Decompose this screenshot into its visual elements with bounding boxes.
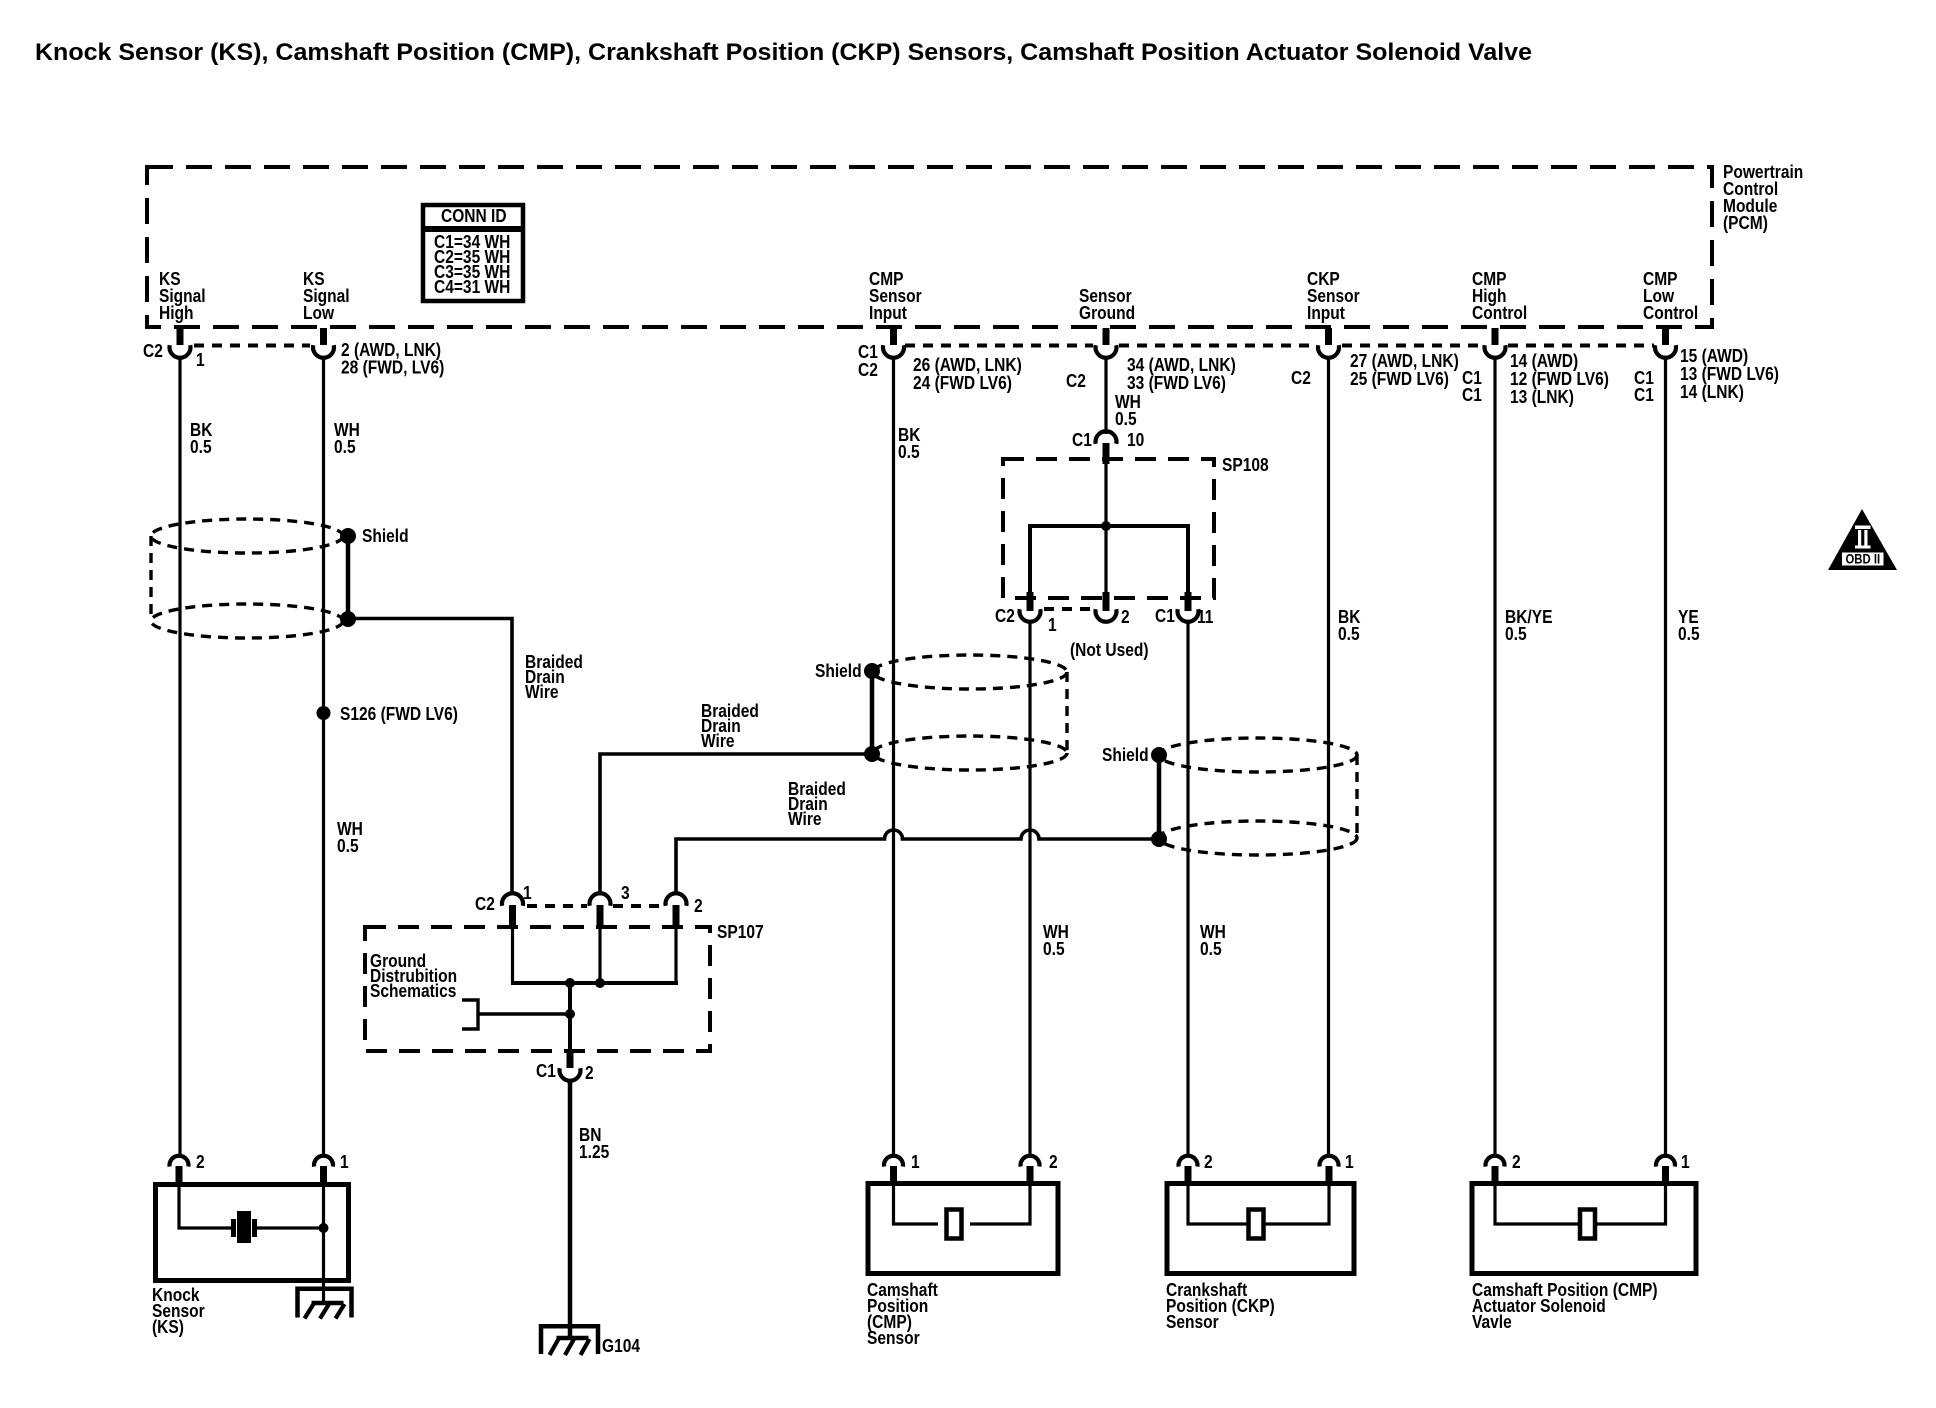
connector pin C1/C2 26/24 (CMP Sensor Input) xyxy=(858,328,1022,393)
connector dotted line between pins 1 and 2 xyxy=(1044,607,1092,611)
connector pin 1 (CKP sensor) xyxy=(1320,1152,1355,1183)
svg-text:3: 3 xyxy=(621,883,630,904)
connector pin 3 (drain from CMP) xyxy=(590,883,630,926)
svg-text:11: 11 xyxy=(1197,607,1214,628)
CKP sensor element xyxy=(1188,1183,1329,1239)
wire sensor ground (WH 0.5) upper segment xyxy=(1104,357,1107,434)
connector pin 2 (CMP sensor) xyxy=(1021,1152,1058,1183)
wire CMP high control (BK/YE 0.5) xyxy=(1493,357,1496,1156)
svg-text:G104: G104 xyxy=(602,1336,640,1357)
braided drain wire from CMP shield to SP107 pin 3 xyxy=(600,754,872,895)
svg-text:27 (AWD, LNK)25 (FWD LV6): 27 (AWD, LNK)25 (FWD LV6) xyxy=(1350,351,1459,390)
wire BN 1.25 to G104 xyxy=(568,1081,573,1341)
svg-text:C1=34 WHC2=35 WHC3=35 WHC4=31: C1=34 WHC2=35 WHC3=35 WHC4=31 WH xyxy=(434,232,510,298)
connector pin 2 (KS) xyxy=(170,1152,205,1183)
connector pin 2 (Not Used) xyxy=(1070,592,1149,660)
CMP cable shield xyxy=(864,655,1067,770)
svg-text:BK0.5: BK0.5 xyxy=(898,425,921,463)
svg-text:S126 (FWD LV6): S126 (FWD LV6) xyxy=(340,704,458,725)
CMP sensor element xyxy=(894,1183,1031,1239)
svg-text:SensorGround: SensorGround xyxy=(1079,286,1135,324)
svg-text:34 (AWD, LNK)33 (FWD LV6): 34 (AWD, LNK)33 (FWD LV6) xyxy=(1127,355,1236,394)
chassis ground (KS) xyxy=(298,1289,352,1319)
connector pin C1 14/12/13 (CMP High Control) xyxy=(1462,328,1609,407)
splice S126 xyxy=(317,704,458,725)
svg-text:Knock Sensor (KS), Camshaft Po: Knock Sensor (KS), Camshaft Position (CM… xyxy=(35,39,1532,66)
svg-text:1: 1 xyxy=(196,350,205,371)
CONN ID table xyxy=(423,205,523,301)
connector pin 2 (drain from CKP) xyxy=(666,893,703,926)
svg-text:C1C1: C1C1 xyxy=(1634,368,1654,406)
wire WH 0.5 to CKP sensor pin 2 xyxy=(1186,621,1189,1156)
knock sensor KS box xyxy=(156,1185,349,1281)
connector dotted line between pins 1 and 2 xyxy=(194,344,310,348)
svg-text:1: 1 xyxy=(911,1152,920,1173)
connector pin C2-1 (KS Signal High) xyxy=(143,328,205,370)
svg-text:C1C1: C1C1 xyxy=(1462,368,1482,406)
connector pin C2-1 (drain from KS) xyxy=(475,883,532,926)
svg-text:(Not Used): (Not Used) xyxy=(1070,640,1149,661)
connector pin 1 (CMP sensor) xyxy=(884,1152,920,1183)
SP108 internal bus xyxy=(1030,521,1188,603)
inline connector C1 pin 10 xyxy=(1072,430,1144,464)
wire KS signal high (BK 0.5) xyxy=(178,357,181,1156)
connector pin 2/28 (KS Signal Low) xyxy=(313,328,444,378)
svg-text:CONN ID: CONN ID xyxy=(441,206,507,227)
wire KS pin 1 to chassis ground xyxy=(322,1184,325,1304)
svg-text:BK0.5: BK0.5 xyxy=(190,420,213,458)
splice pack SP107 dashed box xyxy=(365,927,710,1051)
svg-text:1: 1 xyxy=(1048,615,1057,636)
svg-text:1: 1 xyxy=(340,1152,349,1173)
svg-text:YE0.5: YE0.5 xyxy=(1678,607,1700,645)
svg-text:28 (FWD, LV6): 28 (FWD, LV6) xyxy=(341,357,444,378)
connector pin C2 27/25 (CKP Sensor Input) xyxy=(1291,328,1459,389)
wire CKP sensor input (BK 0.5) xyxy=(1327,357,1330,1156)
wire CMP low control (YE 0.5) xyxy=(1664,357,1667,1156)
KS piezo element xyxy=(179,1184,329,1243)
wire KS signal low (WH 0.5) xyxy=(322,357,325,1156)
svg-text:C1: C1 xyxy=(1072,430,1092,451)
connector pin C1 15/13/14 (CMP Low Control) xyxy=(1634,328,1779,405)
svg-text:C1: C1 xyxy=(536,1061,556,1082)
connector pin C1-2 (ground trunk) xyxy=(536,1052,594,1083)
ground distribution branch with bracket xyxy=(462,1000,575,1029)
connector dotted line across CMP/CKP pins xyxy=(905,344,1654,348)
KS cable shield xyxy=(151,519,356,638)
CKP cable shield xyxy=(1151,738,1357,855)
svg-text:Shield: Shield xyxy=(1102,745,1149,766)
svg-text:2: 2 xyxy=(585,1063,594,1084)
svg-text:10: 10 xyxy=(1127,430,1144,451)
ground G104 xyxy=(541,1326,640,1356)
svg-text:Shield: Shield xyxy=(815,661,862,682)
svg-text:Shield: Shield xyxy=(362,526,409,547)
connector pin C2 34/33 (Sensor Ground) xyxy=(1066,328,1236,393)
svg-text:SP107: SP107 xyxy=(717,922,764,943)
wire WH 0.5 to CMP sensor pin 2 xyxy=(1028,621,1031,1156)
connector pin 2 (CKP sensor) xyxy=(1179,1152,1213,1183)
svg-text:2: 2 xyxy=(196,1152,205,1173)
svg-text:1: 1 xyxy=(1681,1152,1690,1173)
svg-text:1: 1 xyxy=(1345,1152,1354,1173)
svg-text:2: 2 xyxy=(1049,1152,1058,1173)
svg-text:2: 2 xyxy=(694,896,703,917)
svg-text:C2: C2 xyxy=(475,894,495,915)
braided drain wire from CKP shield to SP107 pin 2 (hops over two wires) xyxy=(676,830,1159,895)
svg-text:C2: C2 xyxy=(1066,371,1086,392)
svg-text:SP108: SP108 xyxy=(1222,455,1269,476)
svg-text:2: 2 xyxy=(1512,1152,1521,1173)
connector dotted lines between SP107 pins xyxy=(527,904,663,908)
camshaft position actuator solenoid valve box xyxy=(1472,1184,1696,1274)
svg-text:C2: C2 xyxy=(995,606,1015,627)
splice pack SP108 dashed box xyxy=(1003,459,1214,598)
actuator solenoid element xyxy=(1495,1183,1666,1239)
svg-text:C1: C1 xyxy=(1155,606,1175,627)
wire sensor ground inside SP108 xyxy=(1104,464,1107,603)
crankshaft position CKP sensor box xyxy=(1167,1184,1354,1274)
svg-text:1: 1 xyxy=(523,883,532,904)
svg-text:26 (AWD, LNK)24 (FWD LV6): 26 (AWD, LNK)24 (FWD LV6) xyxy=(913,355,1022,394)
svg-text:BK0.5: BK0.5 xyxy=(1338,607,1361,645)
svg-text:OBD II: OBD II xyxy=(1846,552,1881,567)
svg-text:2: 2 xyxy=(1121,607,1130,628)
svg-text:C2: C2 xyxy=(143,341,163,362)
camshaft position CMP sensor box xyxy=(868,1184,1058,1274)
wire CMP sensor input (BK 0.5) xyxy=(892,357,895,1156)
SP107 internal bus xyxy=(511,926,678,988)
connector pin 2 (actuator) xyxy=(1485,1152,1520,1183)
braided drain wire from KS shield to SP107 pin 1 xyxy=(348,619,512,896)
OBD II symbol xyxy=(1828,509,1897,570)
svg-text:C1C2: C1C2 xyxy=(858,342,878,381)
connector pin C2-1 (CMP sensor ground branch) xyxy=(995,592,1057,635)
connector pin 1 (actuator) xyxy=(1656,1152,1690,1183)
svg-text:2: 2 xyxy=(1204,1152,1213,1173)
connector pin C1-11 (CKP sensor ground branch) xyxy=(1155,592,1214,627)
svg-text:C2: C2 xyxy=(1291,368,1311,389)
PCM (Powertrain Control Module) dashed box xyxy=(147,167,1712,327)
SP107 trunk wire to C1-2 xyxy=(568,983,572,1056)
connector pin 1 (KS) xyxy=(314,1152,349,1183)
